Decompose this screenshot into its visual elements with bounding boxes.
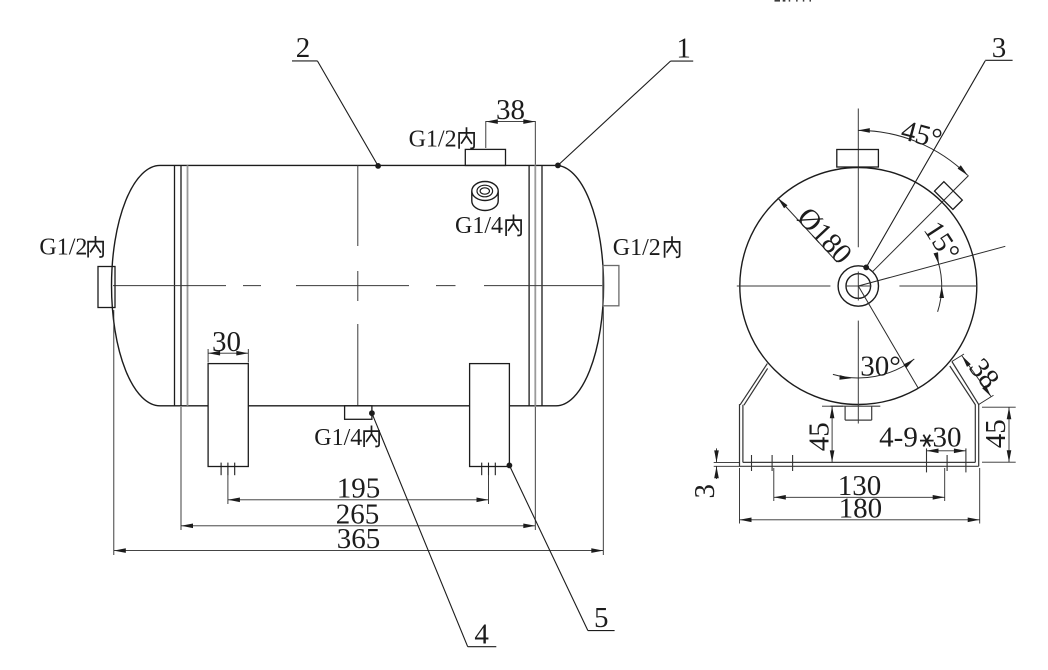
left leg mounting hole ticks — [220, 463, 222, 476]
svg-text:180: 180 — [839, 492, 883, 524]
dimension 38 (top port offset) — [485, 121, 487, 148]
saddle support left wall — [739, 404, 741, 466]
svg-text:1: 1 — [676, 32, 691, 64]
dimension 130 slot spacing — [773, 468, 775, 501]
bottom drain tab end view — [831, 405, 881, 407]
dimension 4-9*30 slot — [927, 450, 966, 452]
svg-text:5: 5 — [594, 602, 609, 634]
boss cross mark — [857, 272, 859, 301]
G1/4 boss on shell (3D ring) — [472, 182, 498, 201]
horizontal centerline of tank — [113, 285, 226, 287]
dia 180 radius arrow and line — [778, 198, 837, 262]
left port G1/2 — [98, 267, 115, 308]
dimension 45 right (saddle height) — [982, 406, 1016, 408]
15 degree dimension arc — [935, 253, 942, 311]
dimension 38 (diagonal) — [952, 354, 964, 362]
tank right elliptical head — [556, 165, 604, 405]
svg-text:4: 4 — [474, 618, 489, 650]
svg-text:3: 3 — [689, 484, 721, 499]
dimension 195 (leg hole spacing) — [227, 468, 229, 504]
horizontal centerline end view — [737, 285, 831, 287]
saddle support left diagonal — [740, 364, 767, 405]
left support leg — [208, 364, 248, 467]
cropped text remnant top edge — [775, 0, 781, 2]
svg-text:30°: 30° — [860, 351, 901, 383]
right support leg — [470, 364, 510, 467]
saddle base plate — [743, 461, 975, 463]
top port G1/2 — [465, 149, 505, 165]
right leg mounting hole ticks — [481, 463, 483, 476]
30-degree radius line — [858, 286, 918, 388]
dimension 30 (leg width) — [207, 349, 209, 363]
svg-text:30: 30 — [933, 422, 962, 454]
tank shell top line — [160, 164, 556, 166]
45-degree radius line — [872, 176, 968, 272]
svg-text:Ø180: Ø180 — [791, 201, 858, 270]
svg-text:G1/2: G1/2 — [39, 235, 87, 261]
right weld seam lines — [528, 165, 530, 405]
dimension 180 base width — [739, 468, 741, 524]
svg-text:G1/2: G1/2 — [409, 126, 457, 152]
45-degree port tab — [935, 182, 963, 210]
svg-text:45: 45 — [804, 422, 836, 451]
svg-text:38: 38 — [496, 94, 525, 126]
right port G1/2 — [603, 266, 619, 306]
top port tab end view — [837, 150, 879, 168]
tank left elliptical head — [112, 165, 160, 405]
dimension 365 (overall shell length) — [113, 310, 115, 555]
center boss outer circle — [838, 266, 878, 306]
svg-text:G1/2: G1/2 — [613, 235, 661, 261]
dimension 3 base thickness — [714, 461, 740, 463]
svg-text:3: 3 — [992, 32, 1007, 64]
svg-text:45°: 45° — [898, 114, 946, 155]
saddle support right wall — [978, 405, 980, 467]
svg-text:365: 365 — [337, 523, 381, 555]
vertical center mark of tank — [357, 165, 359, 246]
bottom drain port G1/4 — [345, 406, 372, 420]
end view shell circle — [740, 168, 977, 405]
svg-text:4-9: 4-9 — [879, 422, 918, 454]
dimension 265 (seam to seam) — [180, 407, 182, 530]
saddle support right diagonal — [952, 362, 979, 405]
svg-text:30: 30 — [212, 326, 241, 358]
center boss bore circle — [846, 274, 871, 299]
15-degree radius line — [858, 246, 1005, 286]
45 degree dimension arc — [858, 130, 967, 175]
base slot ticks — [751, 455, 753, 471]
vertical centerline end view — [857, 109, 859, 248]
30 degree dimension arc — [833, 359, 914, 378]
svg-text:2: 2 — [296, 32, 311, 64]
dimension 45 left (saddle height) — [822, 405, 843, 407]
svg-text:45: 45 — [980, 419, 1012, 448]
left weld seam lines — [174, 165, 176, 405]
svg-text:G1/4: G1/4 — [314, 425, 362, 451]
svg-text:G1/4: G1/4 — [455, 213, 503, 239]
tank shell bottom line — [160, 405, 556, 407]
